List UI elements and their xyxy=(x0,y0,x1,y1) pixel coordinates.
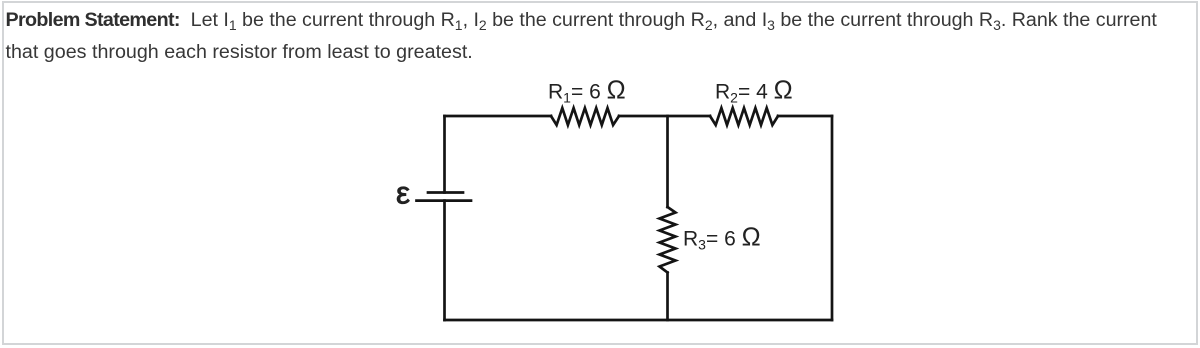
wire: top-left segment (left corner to R1) xyxy=(445,115,552,118)
svg-text:R2= 4 Ω: R2= 4 Ω xyxy=(715,77,793,106)
svg-text:R3= 6 Ω: R3= 6 Ω xyxy=(683,224,761,253)
resistor R3 zigzag xyxy=(660,207,676,273)
wire: middle vertical lower (R3 to bottom wire) xyxy=(666,273,669,321)
wire: left vertical upper (corner to battery top plate) xyxy=(443,116,446,193)
problem statement text xyxy=(6,5,1166,68)
wire: left vertical lower (battery to bottom wire) xyxy=(443,201,446,320)
svg-text:ε: ε xyxy=(396,175,410,211)
svg-text:R1= 6 Ω: R1= 6 Ω xyxy=(548,77,626,106)
wire: top-right segment (R2 to right corner) xyxy=(778,115,832,118)
battery bottom plate (long) xyxy=(417,199,472,202)
battery top plate (short) xyxy=(428,191,463,194)
wire: right vertical (right corner down) xyxy=(831,116,834,320)
wire: middle vertical upper (top node to R3) xyxy=(666,116,669,207)
resistor R2 zigzag xyxy=(710,108,778,125)
wire: bottom horizontal xyxy=(445,319,833,322)
wire: top-middle segment (R1 to node, to R2) xyxy=(619,115,710,118)
resistor R1 zigzag xyxy=(551,108,619,125)
